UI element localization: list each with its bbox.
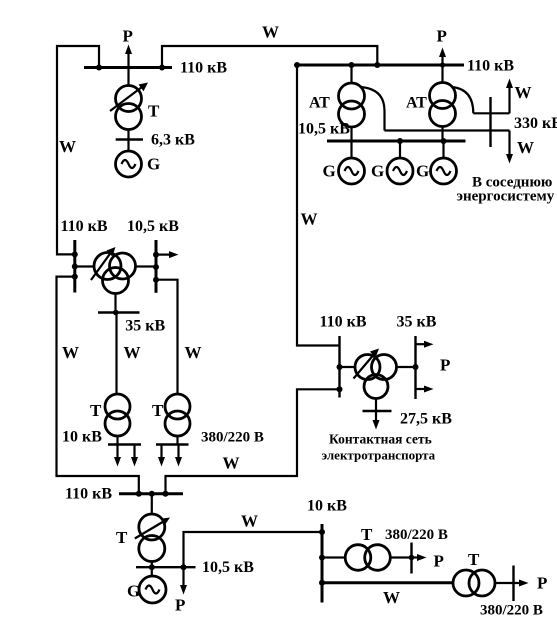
busbar 35 kV vertical (traction) — [414, 336, 416, 399]
label P (bottom station) — [175, 596, 185, 615]
label P (traction 35 kV) — [440, 356, 450, 375]
svg-text:10,5 кВ: 10,5 кВ — [298, 121, 350, 138]
value label 110 кВ (station 2 bus) — [467, 58, 514, 75]
junction dots (left substation 10,5 kV bus) — [153, 252, 159, 283]
svg-text:W: W — [223, 454, 240, 473]
svg-text:380/220 В: 380/220 В — [480, 603, 543, 619]
label W (left line, upper) — [59, 137, 76, 156]
value label 110 кВ (bottom station) — [65, 486, 112, 503]
node 10,5 kV tick (bottom station) — [136, 564, 196, 570]
feeder 2 wire to transformer (W metered) — [322, 581, 453, 584]
three-winding transformer (traction) with tap changer — [340, 349, 416, 399]
label T (feeder 1 transformer) — [361, 525, 373, 544]
label T (bottom station transformer) — [116, 528, 128, 547]
label W (10 kV tie line) — [241, 512, 258, 531]
caption: В соседнюю энергосистему — [457, 175, 555, 205]
load feeder arrow upper (35 kV traction) — [416, 341, 434, 348]
380/220 V distribution bar with two load arrows — [156, 436, 189, 467]
value label 6,3 кВ — [151, 132, 195, 149]
label W (line traction to bottom station) — [223, 454, 240, 473]
value label 380/220 В (left substation) — [201, 430, 264, 446]
svg-text:W: W — [185, 343, 202, 362]
wire: incoming line from bus1 to left substation (W metered) — [57, 46, 99, 254]
svg-text:10 кВ: 10 кВ — [307, 498, 347, 515]
svg-text:110 кВ: 110 кВ — [65, 486, 112, 503]
svg-text:35 кВ: 35 кВ — [125, 318, 165, 335]
label G (station 1) — [147, 155, 160, 174]
label P (station 1) — [123, 27, 133, 46]
label P (station 2) — [437, 27, 447, 46]
wire: line from bus2 down to traction substation (W metered) — [297, 65, 340, 346]
svg-text:G: G — [416, 162, 429, 181]
svg-text:Контактная сеть: Контактная сеть — [329, 432, 432, 447]
svg-text:Т: Т — [148, 102, 160, 121]
label P (feeder 1) — [434, 552, 444, 571]
svg-text:27,5 кВ: 27,5 кВ — [400, 411, 452, 428]
value label 330 кВ — [514, 115, 557, 132]
label W (line to traction substation) — [301, 210, 318, 229]
wire: tie line station1 to station2 (W metered) — [162, 46, 377, 68]
value label 35 кВ (left substation) — [125, 318, 165, 335]
label W (10,5 kV feeder) — [185, 343, 202, 362]
svg-text:Р: Р — [175, 596, 185, 615]
value label 110 кВ (traction) — [320, 314, 367, 331]
svg-text:Т: Т — [468, 550, 480, 569]
generator G3 (station 2) — [431, 141, 457, 184]
value label 110 кВ (left substation) — [61, 218, 108, 235]
label G (bottom station) — [127, 582, 140, 601]
svg-text:G: G — [371, 162, 384, 181]
value label 27,5 кВ — [400, 411, 452, 428]
generator G1 (station 2) — [339, 141, 365, 184]
svg-text:Р: Р — [437, 27, 447, 46]
value label 380/220 В (feeder 2) — [480, 603, 543, 619]
svg-text:G: G — [127, 582, 140, 601]
node 35 kV bar (left substation) — [98, 294, 140, 316]
svg-text:W: W — [62, 343, 79, 362]
busbar 110 kV vertical (left substation) — [73, 240, 76, 293]
value label 35 кВ (traction) — [397, 314, 437, 331]
svg-text:Р: Р — [123, 27, 133, 46]
svg-text:энергосистему: энергосистему — [457, 189, 555, 205]
label AT2 — [406, 95, 427, 112]
autotransformer AT1 — [339, 65, 385, 141]
label W (330 kV upper line) — [515, 83, 532, 102]
svg-text:Т: Т — [116, 528, 128, 547]
busbar 10,5 kV vertical (left substation) — [155, 240, 158, 293]
label W (feeder 2) — [383, 588, 400, 607]
svg-text:W: W — [59, 137, 76, 156]
svg-text:W: W — [262, 23, 279, 42]
transformer T (35 kV / 10 kV) — [105, 394, 130, 436]
svg-text:10 кВ: 10 кВ — [62, 429, 102, 446]
svg-text:АТ: АТ — [406, 95, 427, 112]
svg-text:110 кВ: 110 кВ — [320, 314, 367, 331]
svg-text:Т: Т — [361, 525, 373, 544]
svg-text:W: W — [515, 83, 532, 102]
svg-text:W: W — [383, 588, 400, 607]
label P (feeder 2) — [537, 574, 547, 593]
transformer T (bottom station) with tap changer — [135, 494, 170, 577]
svg-text:Р: Р — [440, 356, 450, 375]
wire: outgoing line from left substation down to bottom station (W metered) — [57, 277, 139, 493]
generator G (bottom station) — [139, 576, 166, 603]
svg-text:Р: Р — [434, 552, 444, 571]
busbar 110 kV vertical (traction) — [338, 336, 340, 398]
busbar 110 kV (station 1) — [84, 66, 172, 69]
label T (10,5/0,4 transformer) — [152, 401, 164, 420]
wire: line bottom station to 10 kV network (W metered) — [184, 532, 323, 567]
junction dots (traction buses) — [337, 364, 419, 392]
svg-text:электротранспорта: электротранспорта — [322, 448, 436, 463]
svg-text:W: W — [301, 210, 318, 229]
10 kV distribution bar with two load arrows — [108, 436, 141, 467]
node 380/220 V tick and P arrow (feeder 1) — [390, 543, 426, 574]
value label 10,5 кВ (station 2) — [298, 121, 350, 138]
label AT1 — [309, 95, 330, 112]
junction dots (left substation 110 kV bus) — [72, 251, 78, 279]
label G3 (station 2) — [416, 162, 429, 181]
svg-text:110 кВ: 110 кВ — [61, 218, 108, 235]
node 6,3 kV tick — [116, 130, 143, 152]
autotransformer AT2 — [430, 65, 474, 141]
value label 110 кВ (station 1 bus) — [180, 60, 227, 77]
junction on bus1 at x=99 — [96, 65, 102, 71]
label G1 (station 2) — [323, 162, 336, 181]
caption: Контактная сеть электротранспорта — [322, 432, 436, 463]
svg-text:G: G — [323, 162, 336, 181]
transformer T (feeder 1, 10/0,4 kV) — [345, 545, 390, 571]
wire: AT1 link to 330 kV with W metered line down (export) — [385, 131, 514, 164]
svg-text:W: W — [241, 512, 258, 531]
svg-text:10,5 кВ: 10,5 кВ — [127, 218, 179, 235]
transformer T (feeder 2, 10/0,4 kV) — [453, 570, 495, 596]
svg-text:АТ: АТ — [309, 95, 330, 112]
svg-text:110 кВ: 110 кВ — [180, 60, 227, 77]
svg-text:Т: Т — [90, 401, 102, 420]
svg-text:330 кВ: 330 кВ — [514, 115, 557, 132]
generator G (station 1) — [116, 151, 142, 177]
generator G2 (station 2) — [387, 141, 413, 184]
label W (35 kV feeder) — [124, 343, 141, 362]
junction dots on bus2 — [294, 62, 445, 68]
busbar 110 kV (station 2) — [296, 64, 465, 67]
busbar 10,5 kV generator bus (station 2) — [327, 140, 466, 143]
P measurement arrow (station 1) — [125, 45, 132, 68]
svg-text:10,5 кВ: 10,5 кВ — [202, 559, 254, 576]
P measurement arrow (station 2) — [439, 48, 446, 66]
svg-text:380/220 В: 380/220 В — [385, 527, 448, 543]
transformer T (station 1) with tap changer — [110, 68, 148, 130]
value label 10 кВ (distribution) — [307, 498, 347, 515]
junction on bus1 at x=162 — [159, 65, 165, 71]
load feeder arrow (10,5 kV, left substation) — [156, 251, 179, 258]
svg-text:380/220 В: 380/220 В — [201, 430, 264, 446]
label T (35/10 transformer) — [90, 401, 102, 420]
value label 10,5 кВ (left substation) — [127, 218, 179, 235]
value label 10,5 кВ (bottom station) — [202, 559, 254, 576]
svg-text:110 кВ: 110 кВ — [467, 58, 514, 75]
value label 10 кВ — [62, 429, 102, 446]
value label 380/220 В (feeder 1) — [385, 527, 448, 543]
node 27,5 kV bar and feeder arrow — [363, 399, 392, 430]
junction dots (10 kV bus) — [319, 529, 325, 586]
label W (tie line) — [262, 23, 279, 42]
label W (330 kV lower line) — [517, 138, 534, 157]
busbar 10 kV vertical — [321, 524, 324, 603]
svg-text:G: G — [147, 155, 160, 174]
wire: 35 kV feeder down to transformer T (W metered) — [115, 313, 117, 395]
svg-text:Т: Т — [152, 401, 164, 420]
feeder 1 wire to transformer — [322, 556, 346, 558]
three-winding transformer (left substation) with tap changer — [75, 247, 156, 294]
svg-text:35 кВ: 35 кВ — [397, 314, 437, 331]
busbar 110 kV (bottom station) — [119, 492, 183, 495]
label G2 (station 2) — [371, 162, 384, 181]
label T (feeder 2 transformer) — [468, 550, 480, 569]
load feeder arrow lower (35 kV traction) with P — [416, 386, 434, 393]
wire: outgoing line from traction substation to bottom station (W metered) — [166, 389, 340, 492]
label W (left line, lower) — [62, 343, 79, 362]
P measurement arrow (bottom station) — [180, 567, 187, 594]
node 380/220 V tick and P arrow (feeder 2) — [495, 566, 529, 602]
svg-text:W: W — [517, 138, 534, 157]
svg-text:Р: Р — [537, 574, 547, 593]
junction dots (bottom 110 kV bus) — [136, 491, 169, 497]
wire: 10,5 kV feeder down to transformer T (W metered) — [156, 280, 178, 394]
busbar 330 kV (vertical) — [489, 97, 491, 147]
transformer T (10,5 kV / 380-220 V) — [165, 394, 190, 436]
svg-text:W: W — [124, 343, 141, 362]
junction dots on generator bus — [397, 138, 447, 144]
label T (station 1 transformer) — [148, 102, 160, 121]
wire: AT2 link to 330 kV with W metered line up (export) — [473, 79, 513, 114]
svg-text:6,3 кВ: 6,3 кВ — [151, 132, 195, 149]
